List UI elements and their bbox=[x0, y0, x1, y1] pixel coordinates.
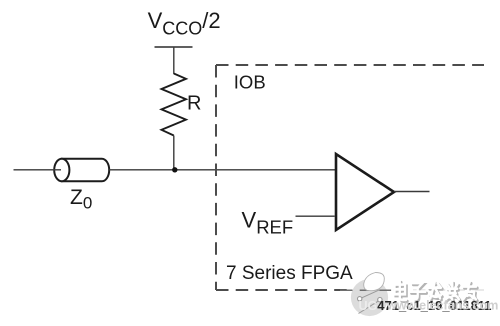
wire left input bbox=[14, 169, 62, 171]
watermark logo traces bbox=[362, 290, 380, 298]
IOB dashed box bottom edge bbox=[216, 289, 484, 291]
wire resistor to junction bbox=[173, 136, 175, 171]
buffer U1 triangle bbox=[336, 154, 394, 230]
svg-text:IOB: IOB bbox=[234, 72, 266, 93]
svg-text:www.elecfans.com: www.elecfans.com bbox=[386, 299, 498, 313]
wire rail to resistor bbox=[173, 47, 175, 74]
watermark logo leaf bbox=[364, 273, 385, 291]
wire cylinder to buffer bbox=[109, 169, 335, 171]
svg-text:R: R bbox=[187, 93, 201, 115]
power rail bar bbox=[155, 46, 193, 48]
svg-text:7 Series FPGA: 7 Series FPGA bbox=[226, 263, 353, 284]
svg-text:UG: UG bbox=[359, 299, 378, 313]
watermark dash over circle bbox=[340, 289, 392, 291]
output wire bbox=[394, 191, 430, 193]
IOB dashed box top edge bbox=[216, 64, 484, 66]
resistor R bbox=[162, 74, 187, 136]
IOB dashed box left edge bbox=[215, 65, 217, 290]
junction dot bbox=[172, 167, 177, 172]
transmission line Z0 body bbox=[62, 159, 109, 182]
transmission line Z0 left ellipse bbox=[54, 159, 69, 182]
VREF wire bbox=[296, 215, 335, 217]
watermark chinese chars bbox=[395, 281, 478, 301]
watermark backing bbox=[391, 279, 485, 305]
watermark logo circle bbox=[351, 279, 388, 316]
